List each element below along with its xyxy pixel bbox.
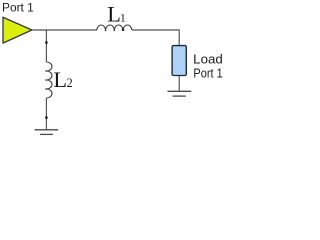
node: pin dot on L2 branch (bottom) <box>45 116 47 118</box>
node: pin dot on L2 branch (top) <box>45 41 47 43</box>
coil cusp loops L2 <box>45 70 47 72</box>
svg-text:Load: Load <box>193 53 223 67</box>
port P1 triangle symbol <box>3 17 32 43</box>
ground (below L2) <box>35 129 59 131</box>
inductor L2 (vertical coil, 4 humps bulging right) <box>46 62 52 98</box>
node: pin dot at L1 third cusp <box>122 29 124 31</box>
load (Load Port 1) rectangle <box>172 46 186 76</box>
svg-text:Port 1: Port 1 <box>193 67 222 81</box>
svg-text:Port 1: Port 1 <box>2 1 34 15</box>
ground (below load) <box>168 90 192 92</box>
wire: triangle tip to L1 left <box>33 29 98 31</box>
wire: junction branch down to L2 top <box>45 30 47 62</box>
coil cusp loops L1 <box>105 30 107 32</box>
inductor L1 (horizontal coil, 4 humps) <box>97 25 132 30</box>
wire: L2 bottom to ground <box>45 98 47 129</box>
wire: load bottom to ground <box>178 76 180 91</box>
wire: L1 right to top-right corner, down to load <box>132 30 179 46</box>
